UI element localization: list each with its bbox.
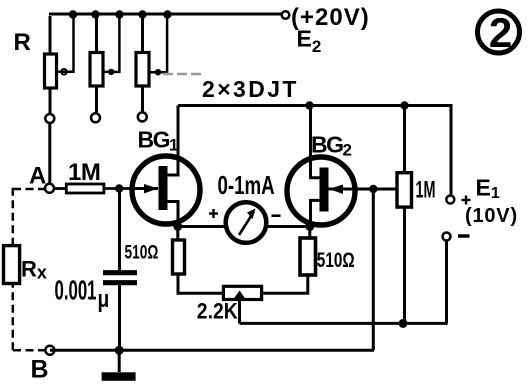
contact circle 2 xyxy=(91,113,100,122)
resistor Rx xyxy=(4,246,20,284)
scan noise mark xyxy=(163,73,205,76)
junction 1M bottom xyxy=(399,319,408,328)
wire contact 1 to node A xyxy=(48,123,51,184)
wire BG2 gate down xyxy=(372,189,375,350)
wire meter to BG2 source xyxy=(266,225,307,228)
wire dashed down to Rx xyxy=(12,188,15,246)
meter 0-1mA xyxy=(226,202,267,243)
potentiometer 2.2K xyxy=(223,286,261,323)
wire dashed to node B xyxy=(13,349,45,352)
wire bottom rail xyxy=(50,349,374,352)
resistor 510 right xyxy=(262,230,316,293)
junction drain BG2 xyxy=(305,101,313,109)
junction node gate BG1 xyxy=(115,184,123,192)
node A xyxy=(45,184,54,193)
junction 1M top xyxy=(400,101,408,109)
wire BG1 source to meter xyxy=(182,225,227,228)
svg-text:B: B xyxy=(31,356,49,384)
resistor 510 left xyxy=(173,230,224,293)
wire top supply rail xyxy=(49,13,281,16)
resistor 1M input xyxy=(54,184,132,193)
resistor R bank 3 xyxy=(136,16,167,112)
contact circle 1 xyxy=(45,114,54,123)
wire dashed Rx to B xyxy=(12,284,15,351)
label minus E1 xyxy=(458,234,470,238)
svg-text:2×3DJT: 2×3DJT xyxy=(202,76,299,102)
capacitor 0.001u xyxy=(103,192,137,351)
svg-text:0-1mA: 0-1mA xyxy=(218,170,275,200)
svg-text:2: 2 xyxy=(489,9,512,56)
ground xyxy=(102,350,136,381)
transistor BG1 xyxy=(132,106,200,227)
wire E1 minus down xyxy=(445,241,448,324)
terminal E1 plus xyxy=(446,196,454,204)
wire drain rail xyxy=(178,104,451,107)
svg-text:510Ω: 510Ω xyxy=(317,248,355,272)
label meter plus xyxy=(209,209,218,218)
wire wiper to E1 minus xyxy=(240,322,448,325)
resistor R bank 2 xyxy=(90,16,119,113)
junction source BG1 xyxy=(173,222,182,231)
svg-text:(10V): (10V) xyxy=(465,205,518,227)
svg-text:μ: μ xyxy=(98,285,110,313)
label meter minus xyxy=(272,214,281,217)
junction source BG2 xyxy=(305,222,314,231)
svg-text:0.001: 0.001 xyxy=(55,274,97,306)
resistor R bank 1 xyxy=(45,16,74,114)
label plus E1 xyxy=(462,196,471,205)
svg-text:1M: 1M xyxy=(416,177,436,204)
junction dot rail 4 xyxy=(138,10,146,18)
terminal E2 xyxy=(282,11,290,19)
junction dot rail 3 xyxy=(115,10,123,18)
transistor BG2 xyxy=(287,106,397,227)
junction gate BG2 xyxy=(369,185,377,193)
svg-text:2.2K: 2.2K xyxy=(197,299,238,323)
junction capacitor bottom xyxy=(115,346,124,355)
resistor 1M right xyxy=(397,106,412,324)
svg-text:A: A xyxy=(29,163,46,190)
wire rail to E1 plus xyxy=(450,104,453,196)
node B xyxy=(45,346,54,355)
svg-text:1M: 1M xyxy=(68,159,100,186)
circled figure number 2 xyxy=(478,9,520,56)
wire dashed A to Rx xyxy=(13,188,45,191)
svg-text:R: R xyxy=(14,29,31,56)
contact circle 3 xyxy=(138,112,147,121)
junction dot rail 2 xyxy=(91,10,99,18)
junction dot rail 1 xyxy=(69,10,77,18)
junction dot rail 5 xyxy=(163,10,171,18)
svg-text:510Ω: 510Ω xyxy=(125,241,159,263)
terminal E1 minus xyxy=(443,233,451,241)
